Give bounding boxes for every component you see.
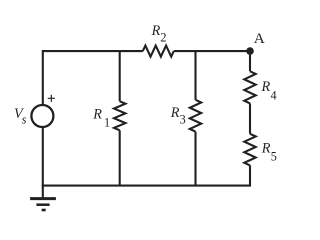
wire left rail lower (Vs to ground) <box>42 127 44 197</box>
wire top right to node A and down to R4 <box>174 51 250 71</box>
svg-text:s: s <box>22 113 27 127</box>
svg-text:R: R <box>261 140 271 156</box>
ground bar 2 <box>36 203 49 206</box>
wire right rail bottom + bottom rail <box>42 165 250 185</box>
wire R1 branch lower <box>119 130 121 185</box>
voltage source Vs circle <box>31 105 53 127</box>
svg-text:R: R <box>261 79 271 95</box>
svg-text:R: R <box>170 105 180 121</box>
wire R1 branch upper <box>119 51 121 101</box>
wire R3 branch lower <box>194 132 196 186</box>
svg-text:3: 3 <box>180 113 186 127</box>
resistor R3 <box>190 100 201 132</box>
ground bar 3 <box>42 209 46 212</box>
svg-text:1: 1 <box>104 115 110 129</box>
wire left rail + top wire to R2 <box>43 51 143 105</box>
svg-text:2: 2 <box>160 31 166 45</box>
node A junction dot <box>246 47 254 55</box>
svg-text:A: A <box>254 30 265 47</box>
svg-text:5: 5 <box>271 149 277 163</box>
resistor R2 <box>143 46 174 57</box>
svg-text:R: R <box>92 107 102 123</box>
resistor R5 <box>244 134 255 166</box>
voltage source plus sign <box>48 95 55 102</box>
svg-text:R: R <box>151 23 161 39</box>
wire R3 branch upper <box>194 51 196 100</box>
svg-text:4: 4 <box>271 88 277 102</box>
resistor R1 <box>114 101 125 130</box>
ground bar 1 <box>30 197 56 200</box>
wire between R4 and R5 <box>249 103 251 133</box>
resistor R4 <box>244 71 255 103</box>
